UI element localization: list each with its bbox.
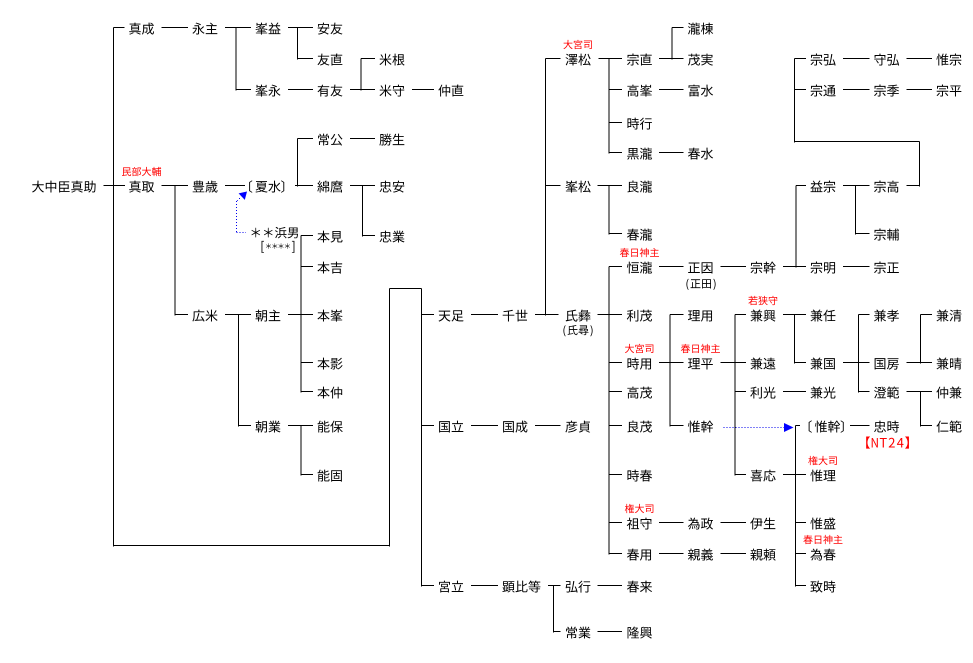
person 常公 [318,134,342,146]
person 綿麿 [317,181,342,193]
wire 有友—米守 + 米根 bracket [350,59,375,91]
wire 顕比等—弘行 + 常業 bracket [548,586,561,633]
title 大宮司 [625,344,653,353]
person 国房 [875,358,899,369]
person 惟理 [810,470,835,482]
person 友直 [317,54,342,66]
wire 真成—永主 [162,27,189,29]
person 国成 [503,421,527,433]
title 若狭守 [748,296,777,305]
person 能保 [318,421,343,433]
wire 朝業—能保 + 能固 bracket [288,426,313,476]
wire 宮立—顕比等 [471,585,498,587]
label 【NT24】 [866,437,909,449]
wire 宗明—宗正 [843,266,870,268]
person 忠時 [874,421,899,433]
person 隆興 [628,627,652,639]
wire 恒瀧—正因 [659,266,684,268]
person 喜応 [751,470,776,482]
wire 峯永—有友 [288,89,313,91]
person 宗平 [937,85,962,97]
person 仁範 [936,421,961,433]
wire 永主—峯益 + 峯永 bracket [225,28,251,91]
person 利茂 [627,310,652,322]
person 本吉 [317,262,342,274]
wire 朝主—本峯 + 本見/本吉/本影/本仲 bracket [288,236,313,393]
person 宗弘 [811,54,836,66]
wire 常公—勝生 [350,138,375,140]
wire 常業—隆興 [598,631,623,633]
person 富水 [689,85,714,97]
wire 高峯—富水 [659,89,684,91]
title 権大司 [625,504,654,513]
person 惟幹 [809,420,844,432]
person 守弘 [874,54,899,66]
person 祖守 [627,518,652,530]
person 弘行 [566,581,591,593]
wire 豊歳—〔夏水〕 [225,185,245,187]
person 忠安 [380,181,405,193]
wire 澤松—宗直 + 高峯/時行/黒瀧 bracket [599,59,623,154]
person 兼晴 [937,358,962,370]
person 春瀧 [627,229,652,241]
wire 兼興—兼任 + 兼国 bracket [783,315,806,364]
alt (氏尋) [563,325,592,336]
wire 国成—彦貞 [535,425,561,427]
person 春用 [627,549,651,561]
wire 天足—千世 [471,314,498,316]
wire 利光—兼光 [783,391,806,393]
person 兼孝 [874,310,899,322]
person 親義 [688,549,713,561]
person 宗直 [627,54,652,66]
person 豊歳 [193,181,218,193]
wire 綿麿—忠安 + 忠業 bracket [350,186,375,237]
person 澤松 [565,54,590,66]
person 益宗 [810,181,835,193]
person 致時 [810,581,835,593]
wire 宗高—宗弘/宗通 loop [795,59,920,187]
wire 為政—伊生 [721,522,747,524]
person 兼遠 [751,358,776,370]
person 宗高 [874,181,899,193]
person 本峯 [317,310,342,322]
person 忠業 [380,231,405,243]
wire 喜応—惟理 [783,474,806,476]
person 峯松 [565,181,590,193]
wire 兼国—国房 + 兼孝/澄範 bracket [843,315,870,393]
person 高茂 [627,387,652,399]
note ＊＊浜男 [251,227,298,238]
person 瀧棟 [688,23,713,35]
wire 宗弘—守弘 [843,58,870,60]
adoption arrow to 〔夏水〕 [237,192,248,233]
person 正因 [688,262,712,273]
person 真成 [129,23,154,35]
wire 国立—国成 [471,425,498,427]
wire routing to 天足/国立/宮立 [114,289,435,587]
person 黒瀧 [627,148,652,160]
person 本影 [317,358,342,370]
wire 峯益—安友 + 友直 bracket [288,28,313,60]
person 為春 [810,549,835,561]
wire 〔惟幹〕—忠時 [850,425,870,427]
wire 〔惟幹〕 children bracket [796,426,807,587]
person 宗明 [811,262,836,274]
person 宗正 [874,262,899,274]
wire 大中臣真助 children bracket [114,28,125,547]
person 宗輔 [874,229,899,241]
wire 宗直—茂実 + 瀧棟 bracket [659,28,684,60]
person 兼光 [811,387,836,399]
person 恒瀧 [627,262,652,274]
person 常業 [566,627,590,639]
person 兼国 [811,358,835,370]
wire 守弘—惟宗 [907,58,933,60]
title 民部大輔 [122,167,161,176]
title 大宮司 [563,40,591,49]
title 春日神主 [620,248,659,257]
wire 春用—親義 [659,553,684,555]
person 為政 [688,518,713,530]
person 宗季 [874,85,899,97]
person 天足 [439,310,464,321]
wire 親義—親頼 [721,553,747,555]
person 時春 [627,470,652,482]
person 氏彝 [566,310,591,322]
person 彦貞 [565,421,590,433]
person 真取 [129,181,154,193]
alt (正田) [686,279,715,290]
wire 宗通—宗季 [843,89,870,91]
wire 祖守—為政 [659,522,684,524]
wire 宗季—宗平 [907,89,933,91]
person 宮立 [439,581,463,593]
person 勝生 [379,134,404,146]
person 茂実 [688,54,713,66]
person 理用 [688,310,712,321]
person 時行 [627,118,651,130]
adoption arrow 惟幹→〔惟幹〕 [724,423,794,432]
wire 氏彝—利茂 + children bracket [598,267,623,555]
wire 千世—氏彝 + 澤松/峯松 bracket [535,59,561,316]
person 仲直 [438,85,463,97]
person 理平 [688,358,713,369]
person 仲兼 [936,387,961,399]
wire 峯松—良瀧 + 春瀧 bracket [598,186,623,235]
person 宗幹 [751,262,776,274]
person 本仲 [317,387,342,399]
wire 国房—兼晴 + 兼清 bracket [907,315,933,364]
wire 黒瀧—春水 [659,152,684,154]
person 惟宗 [936,54,961,66]
person 本見 [317,231,342,243]
person 広米 [192,310,217,322]
person 惟盛 [810,518,835,530]
person 安友 [318,23,343,35]
person 時用 [627,358,651,370]
person 永主 [192,23,217,35]
wire 理平—兼遠 + 兼興/利光/喜応 bracket [721,315,747,476]
person 千世 [503,310,528,322]
person 春来 [627,581,652,593]
wire 大中臣真助—真取 [104,185,126,187]
person 峯益 [255,23,280,35]
person 米根 [379,54,404,66]
person 利光 [750,387,775,399]
person 峯永 [255,85,280,97]
person 惟幹 [688,421,713,433]
wire 時用—理平 + 理用/惟幹 bracket [659,315,684,427]
person 兼清 [937,310,962,322]
person 伊生 [750,518,775,530]
title 権大司 [808,456,837,465]
person 良茂 [627,421,652,433]
person 有友 [318,85,343,97]
person 朝業 [256,421,281,433]
person 国立 [439,421,463,433]
person 澄範 [874,387,899,399]
person 米守 [379,85,404,97]
person 朝主 [256,310,281,322]
wire 広米—朝主 + 朝業 bracket [225,315,251,427]
wire 真取—豊歳 + 広米 bracket [162,186,189,316]
wire 益宗—宗高 + 宗輔 bracket [843,186,870,235]
person 能固 [318,470,342,482]
wire 〔夏水〕—綿麿 + 常公 bracket [295,139,313,187]
person 兼任 [811,310,836,322]
wire 澄範—仲兼 + 仁範 bracket [907,392,933,427]
person 宗通 [811,85,836,97]
title 春日神主 [681,344,720,353]
person 大中臣真助 [32,181,96,193]
person 春水 [688,148,713,160]
wire 宗幹—宗明 + 益宗 bracket [783,186,806,268]
wire 正因—宗幹 [721,266,747,268]
wire 米守—仲直 [412,89,434,91]
person 高峯 [627,85,652,97]
title 春日神主 [803,535,842,544]
person 親頼 [750,549,775,561]
person 顕比等 [502,581,540,593]
person 兼興 [751,310,776,322]
person 夏水 [249,180,284,192]
person 良瀧 [627,181,652,193]
wire 弘行—春来 [598,585,623,587]
